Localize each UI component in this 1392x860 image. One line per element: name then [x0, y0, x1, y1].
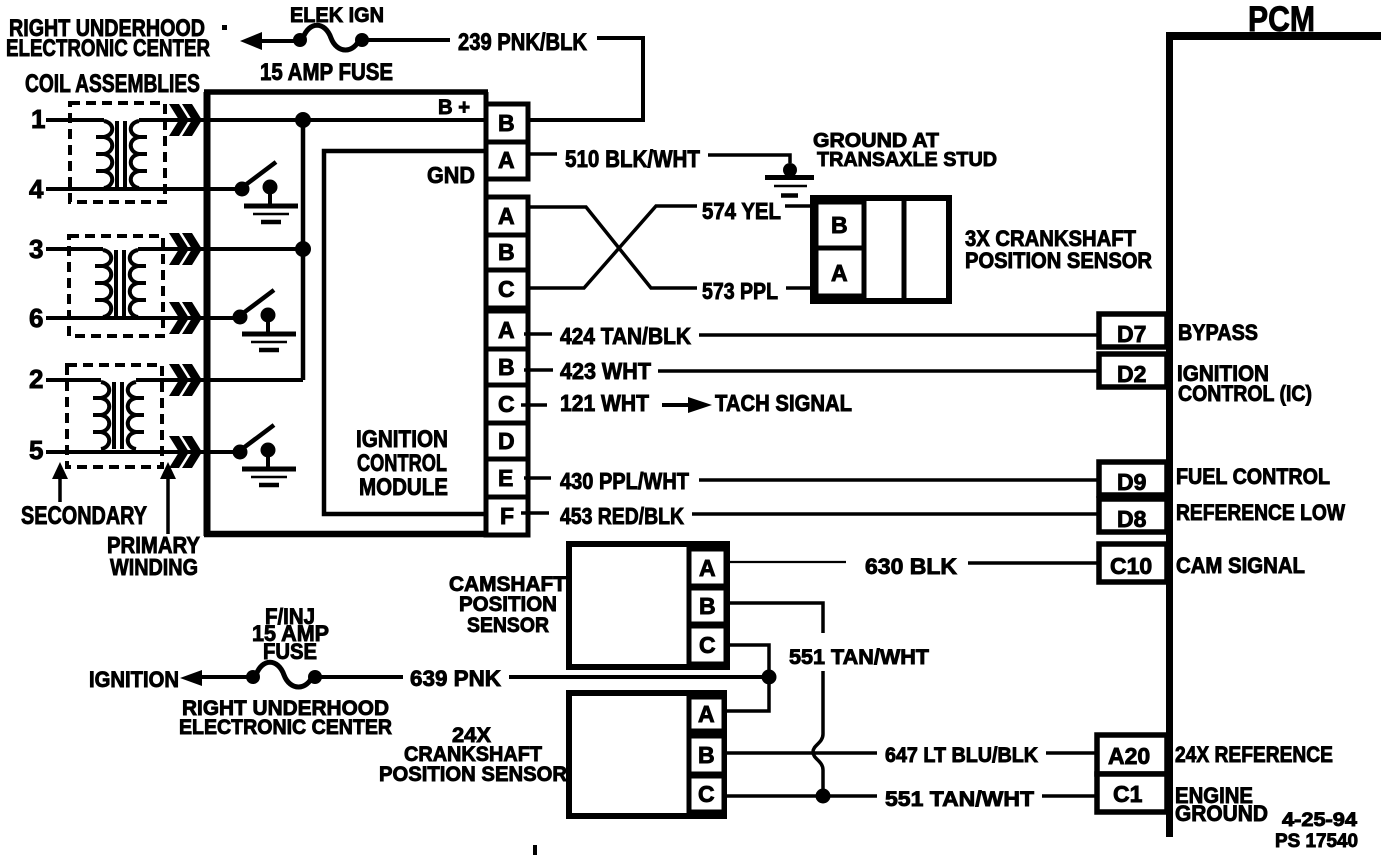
PCM pin D2: [1099, 354, 1167, 387]
svg-text:647 LT BLU/BLK: 647 LT BLU/BLK: [885, 744, 1038, 767]
wire 453 RED/BLK to D8: [692, 512, 1099, 516]
svg-text:IGNITION: IGNITION: [356, 426, 448, 453]
svg-text:C1: C1: [1113, 781, 1143, 807]
svg-text:F: F: [500, 503, 514, 529]
arrow to ignition: [180, 670, 202, 686]
switch Q3 with ground: [233, 425, 297, 485]
ICM pin B (B+): [486, 104, 528, 142]
speck artifact: [222, 25, 227, 30]
wire terminal 3 to B+ branch: [46, 247, 303, 251]
24X sensor pin B: [689, 736, 724, 774]
svg-text:POSITION: POSITION: [459, 593, 557, 616]
wire 24X C to 551 label: [724, 794, 877, 798]
svg-text:A: A: [498, 147, 515, 173]
svg-text:1: 1: [31, 104, 45, 134]
svg-text:C10: C10: [1110, 553, 1152, 579]
wire cam C to 639 junction and 24X pin A: [726, 645, 769, 711]
ignition module outer box left wall: [204, 92, 211, 536]
svg-text:POSITION SENSOR: POSITION SENSOR: [379, 763, 567, 786]
coil 2 windings: [95, 250, 146, 317]
label CAMSHAFT POSITION SENSOR: [449, 573, 566, 637]
svg-text:B: B: [498, 110, 515, 136]
coil 1 windings: [96, 121, 147, 188]
wire cam A to 630 label: [727, 561, 846, 563]
svg-text:510 BLK/WHT: 510 BLK/WHT: [565, 146, 700, 173]
PCM pin A20: [1097, 735, 1167, 774]
24X crankshaft position sensor box: [569, 693, 724, 816]
label RIGHT UNDERHOOD ELECTRONIC CENTER (top left): [6, 15, 210, 62]
svg-text:GND: GND: [427, 162, 475, 188]
svg-text:551 TAN/WHT: 551 TAN/WHT: [885, 788, 1034, 811]
svg-text:C: C: [498, 391, 515, 417]
wire ICM A to 573 PPL (crossover): [528, 207, 697, 288]
svg-text:SENSOR: SENSOR: [467, 614, 549, 637]
wire 510 to ground: [708, 155, 790, 163]
svg-text:2: 2: [29, 364, 43, 394]
svg-text:ELECTRONIC CENTER: ELECTRONIC CENTER: [6, 35, 210, 62]
chevron on wire 1: [169, 104, 202, 136]
svg-text:3: 3: [29, 234, 43, 264]
svg-text:ELECTRONIC CENTER: ELECTRONIC CENTER: [179, 716, 392, 739]
3X crankshaft position sensor box: [813, 198, 949, 301]
svg-text:POSITION SENSOR: POSITION SENSOR: [965, 248, 1152, 273]
wire 551 to C1: [1042, 794, 1099, 798]
ground at transaxle stud: [765, 163, 814, 196]
coil assembly 3 dashed box: [67, 365, 162, 467]
svg-text:630 BLK: 630 BLK: [865, 554, 957, 579]
label F/INJ 15 AMP FUSE: [252, 604, 329, 664]
coil 3 windings: [93, 382, 144, 449]
wire 510 BLK/WHT stub: [528, 152, 557, 156]
3X sensor pin A: [816, 248, 864, 296]
svg-text:A: A: [831, 260, 848, 286]
SECONDARY pointer arrow: [52, 462, 68, 502]
wire 423 WHT to D2: [658, 369, 1099, 373]
junction node wire3/branch: [295, 241, 311, 257]
B+ branch bus: [301, 120, 306, 380]
PCM left wall: [1166, 33, 1173, 837]
svg-text:CAM SIGNAL: CAM SIGNAL: [1176, 553, 1305, 578]
wire terminal 1 to B+ pin: [46, 118, 486, 122]
svg-text:5: 5: [29, 435, 43, 465]
fuse F/INJ 15 AMP: [246, 662, 322, 687]
svg-text:574 YEL: 574 YEL: [702, 198, 781, 224]
wire 424 TAN/BLK to D7: [699, 333, 1099, 337]
svg-text:SECONDARY: SECONDARY: [21, 502, 147, 530]
wire 423 stub: [524, 368, 553, 372]
svg-text:FUEL CONTROL: FUEL CONTROL: [1176, 464, 1330, 489]
chevron on wire 6: [169, 302, 202, 334]
wire 430 stub: [524, 476, 551, 480]
cam sensor pin B: [689, 588, 726, 624]
wire 430 PPL/WHT to D9: [699, 478, 1099, 482]
label IGNITION CONTROL MODULE: [356, 426, 448, 501]
svg-text:15 AMP FUSE: 15 AMP FUSE: [260, 59, 393, 86]
arrow to right underhood electronic center: [240, 32, 262, 50]
svg-text:D8: D8: [1117, 506, 1147, 532]
svg-text:D9: D9: [1117, 469, 1146, 495]
wire terminal 4 to switch 1: [46, 187, 236, 191]
wire 24X B to 647 label: [724, 751, 877, 755]
wire 424 stub: [524, 332, 552, 336]
svg-text:MODULE: MODULE: [359, 474, 448, 501]
svg-text:D2: D2: [1117, 361, 1146, 387]
ICM pin A (574): [486, 197, 528, 235]
svg-text:B: B: [699, 593, 716, 619]
label 3X CRANKSHAFT POSITION SENSOR: [965, 226, 1152, 273]
3X sensor pin B: [816, 202, 864, 248]
svg-text:BYPASS: BYPASS: [1178, 320, 1258, 345]
svg-text:D: D: [498, 428, 515, 454]
wire 239 PNK/BLK to pin B: [528, 38, 643, 120]
wire elek ign feed: [258, 39, 294, 43]
svg-text:FUSE: FUSE: [263, 639, 317, 664]
ignition module outer box bottom edge: [204, 531, 524, 538]
label IGNITION CONTROL (IC): [1177, 361, 1312, 406]
label ENGINE GROUND: [1175, 783, 1268, 826]
wire 121 stub: [521, 403, 547, 407]
wire cam B down (551): [727, 603, 823, 633]
cam sensor pin C: [689, 626, 726, 664]
svg-text:4: 4: [29, 174, 44, 204]
PCM pin D9: [1099, 462, 1167, 495]
wire terminal 2 to B+ branch: [46, 378, 303, 382]
ICM pin D: [486, 423, 528, 459]
svg-text:TRANSAXLE STUD: TRANSAXLE STUD: [817, 149, 997, 171]
24X sensor pin C: [689, 776, 724, 812]
svg-text:CONTROL (IC): CONTROL (IC): [1178, 381, 1312, 406]
chevron on wire 5: [169, 436, 202, 468]
wire terminal 5 to switch 3: [46, 450, 234, 454]
wire 551 vertical with hop over 647: [813, 671, 823, 796]
PRIMARY WINDING pointer arrow: [160, 462, 176, 534]
ICM pin B (423): [486, 349, 528, 385]
fuse ELEK IGN 15 AMP: [293, 25, 369, 50]
tach signal arrow: [662, 397, 712, 413]
svg-text:B: B: [498, 239, 515, 265]
PCM pin D7: [1099, 314, 1167, 347]
svg-text:A: A: [498, 203, 515, 229]
camshaft position sensor box: [569, 544, 727, 667]
svg-text:WINDING: WINDING: [110, 554, 198, 580]
svg-text:C: C: [699, 632, 716, 658]
svg-text:A: A: [498, 317, 515, 343]
chevron on wire 3: [169, 233, 202, 265]
wire ICM C to 574 YEL (crossover): [528, 206, 697, 288]
wire terminal 6 to switch 2: [46, 316, 234, 320]
svg-text:6: 6: [29, 303, 43, 333]
svg-text:IGNITION: IGNITION: [89, 667, 179, 692]
wire 453 stub: [521, 511, 549, 515]
svg-text:COIL ASSEMBLIES: COIL ASSEMBLIES: [25, 70, 200, 98]
wire fuse to 639 label: [321, 675, 403, 679]
svg-text:639 PNK: 639 PNK: [410, 666, 501, 691]
svg-text:A: A: [698, 701, 715, 727]
24X sensor pin A: [689, 697, 724, 731]
junction node wire1/branch: [295, 112, 311, 128]
label PRIMARY WINDING: [107, 532, 200, 580]
label GROUND AT TRANSAXLE STUD: [813, 130, 997, 171]
wire 639 PNK to junction: [509, 675, 769, 679]
svg-text:4-25-94: 4-25-94: [1282, 810, 1357, 831]
svg-text:E: E: [498, 465, 513, 491]
PCM pin C10: [1099, 544, 1167, 582]
junction node 639/cam C: [762, 670, 777, 685]
label RIGHT UNDERHOOD ELECTRONIC CENTER (bottom): [179, 697, 392, 739]
svg-text:B: B: [831, 212, 848, 238]
ICM pin E (430): [486, 459, 528, 497]
ICM pin F (453): [486, 497, 528, 535]
svg-text:24X REFERENCE: 24X REFERENCE: [1175, 742, 1333, 767]
svg-text:423 WHT: 423 WHT: [560, 358, 651, 384]
svg-text:453 RED/BLK: 453 RED/BLK: [560, 503, 684, 529]
switch Q1 with ground: [235, 162, 299, 222]
svg-text:PS 17540: PS 17540: [1275, 831, 1358, 852]
svg-text:ELEK IGN: ELEK IGN: [290, 4, 384, 27]
ignition module outer box top edge: [204, 89, 488, 95]
wire 574 YEL to sensor pin B: [785, 204, 816, 208]
svg-text:CONTROL: CONTROL: [357, 450, 447, 477]
switch Q2 with ground: [233, 290, 297, 350]
svg-text:B: B: [698, 742, 715, 768]
wire 630 BLK to C10: [968, 561, 1099, 565]
ICM pin C (121): [486, 385, 528, 423]
label 24X CRANKSHAFT POSITION SENSOR: [379, 724, 567, 786]
3X sensor divider: [902, 198, 907, 301]
wire 647 to A20: [1046, 751, 1099, 755]
speck artifact bottom: [533, 845, 537, 855]
ICM pin C: [486, 270, 528, 308]
svg-text:GROUND: GROUND: [1175, 801, 1268, 826]
coil assembly 1 dashed box: [70, 103, 165, 202]
svg-text:D7: D7: [1117, 321, 1146, 347]
ICM pin B (573): [486, 235, 528, 270]
chevron on wire 2: [169, 364, 202, 396]
ignition control module inner box: [324, 151, 486, 514]
junction node 551: [816, 789, 831, 804]
PCM top edge: [1166, 32, 1381, 40]
svg-text:424 TAN/BLK: 424 TAN/BLK: [560, 323, 691, 349]
svg-text:REFERENCE LOW: REFERENCE LOW: [1176, 500, 1345, 525]
svg-text:C: C: [698, 781, 715, 807]
cam sensor pin A: [689, 549, 726, 586]
svg-text:239 PNK/BLK: 239 PNK/BLK: [458, 29, 588, 56]
svg-text:A20: A20: [1108, 743, 1150, 769]
ICM pin A (GND): [486, 142, 528, 179]
svg-text:TACH SIGNAL: TACH SIGNAL: [715, 390, 852, 416]
PCM pin D8: [1099, 499, 1167, 532]
svg-text:573 PPL: 573 PPL: [702, 278, 778, 304]
svg-text:430 PPL/WHT: 430 PPL/WHT: [560, 468, 689, 494]
coil assembly 2 dashed box: [69, 236, 163, 336]
svg-text:C: C: [498, 276, 515, 302]
wire ignition to fuse: [198, 675, 247, 679]
svg-text:121 WHT: 121 WHT: [560, 390, 649, 416]
svg-text:551 TAN/WHT: 551 TAN/WHT: [789, 646, 929, 669]
ICM pin column spine: [484, 92, 489, 536]
wire 573 PPL to sensor pin A: [786, 286, 816, 290]
svg-text:B +: B +: [438, 96, 470, 119]
wire fuse to 239 label: [366, 38, 450, 42]
svg-text:A: A: [699, 555, 716, 581]
svg-text:B: B: [498, 354, 515, 380]
ICM pin A (424): [486, 311, 528, 349]
PCM pin C1: [1097, 774, 1167, 812]
